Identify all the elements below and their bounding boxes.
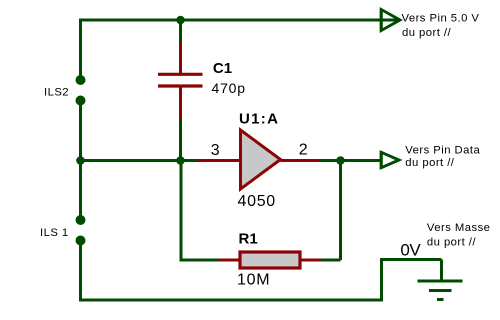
ground symbol (418, 281, 463, 300)
svg-text:R1: R1 (239, 231, 258, 248)
junction mid rail / left vertical (76, 156, 85, 165)
resistor R1 (220, 252, 321, 268)
svg-text:0V: 0V (400, 241, 421, 260)
wire mid rail from left vertical to U1 pin (81, 159, 199, 162)
junction mid rail / capacitor branch (176, 156, 185, 165)
node ILS1 top contact dot (76, 215, 86, 225)
wire R1 right corner segment (321, 259, 341, 262)
node ILS2 bottom contact dot (76, 96, 86, 106)
wire feedback vertical from output junction down to R1 (339, 161, 342, 261)
svg-text:C1: C1 (213, 60, 232, 77)
wire top rail from left vertical to 5V terminal (79, 19, 399, 22)
op-amp buffer U1:A body 4050 (241, 130, 281, 189)
node ILS1 bottom contact dot (76, 236, 86, 246)
svg-text:Vers Pin Data: Vers Pin Data (405, 145, 480, 157)
wire left vertical middle segment (ILS2 to ILS1 top contact) (79, 101, 82, 221)
wire output to data terminal (320, 159, 380, 162)
svg-text:du port //: du port // (402, 27, 451, 39)
terminal arrow 5V (381, 9, 400, 32)
svg-text:Vers Masse: Vers Masse (427, 222, 491, 234)
svg-text:470p: 470p (212, 80, 246, 96)
wire vertical branch from mid rail junction down to R1 (180, 161, 183, 262)
terminal arrow Data (381, 151, 399, 168)
svg-text:2: 2 (299, 142, 308, 159)
pin 3 lead of U1:A (198, 159, 241, 162)
node ILS2 top contact dot (76, 75, 86, 85)
wire left vertical lower segment (ILS1 to bottom rail) (79, 241, 82, 302)
wire ground stem (440, 260, 443, 282)
wire ground riser from bottom rail (380, 260, 383, 302)
svg-text:Vers Pin 5.0 V: Vers Pin 5.0 V (402, 13, 480, 25)
wire bottom rail (79, 299, 382, 302)
svg-text:ILS 1: ILS 1 (40, 227, 69, 239)
svg-text:U1:A: U1:A (239, 111, 279, 128)
junction output / feedback branch (336, 156, 345, 165)
pin 2 lead of U1:A (281, 159, 321, 162)
wire left vertical upper segment (top rail to ILS2 top contact) (79, 19, 82, 81)
svg-text:du port //: du port // (427, 236, 476, 248)
wire capacitor bottom stub to mid rail (179, 120, 182, 161)
svg-text:4050: 4050 (238, 193, 276, 210)
capacitor C1 (158, 42, 203, 120)
svg-text:ILS2: ILS2 (44, 87, 69, 99)
junction top rail / capacitor branch (176, 16, 185, 25)
wire R1 left lead to vertical branch (181, 259, 220, 262)
svg-text:10M: 10M (237, 272, 270, 289)
wire capacitor top stub (179, 20, 182, 42)
svg-text:3: 3 (211, 142, 220, 159)
svg-text:du port //: du port // (405, 157, 454, 169)
wire ground horizontal segment (380, 258, 442, 261)
